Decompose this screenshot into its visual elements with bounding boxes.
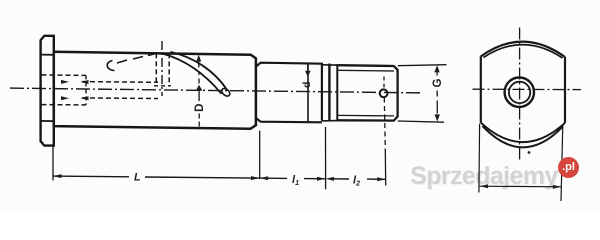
end view bottom arc outer xyxy=(483,126,564,147)
hidden bore wide xyxy=(42,74,87,77)
hidden bore narrow xyxy=(82,81,158,84)
svg-text:G: G xyxy=(432,79,444,88)
G dimension extension lines xyxy=(398,65,447,66)
D dimension xyxy=(196,55,201,62)
centerline main axis xyxy=(10,88,422,93)
hex head outline xyxy=(41,36,54,146)
hex head flat lines xyxy=(41,54,54,56)
groove curve lower xyxy=(163,54,222,94)
G dimension xyxy=(434,65,439,72)
svg-text:d: d xyxy=(301,82,313,88)
watermark pl badge xyxy=(558,157,579,178)
end view hole outer xyxy=(505,78,534,107)
cotter hole centerline dashes xyxy=(383,77,385,90)
relief bands xyxy=(322,64,337,66)
end view left flat xyxy=(480,56,482,122)
main body outline xyxy=(54,52,256,129)
scan speck xyxy=(528,151,531,154)
cross hole axis dash-dot xyxy=(161,41,163,96)
end view horizontal centerline xyxy=(473,88,582,90)
dimension arrows xyxy=(53,174,62,178)
svg-text:l2: l2 xyxy=(353,175,360,188)
cross hole hidden lines xyxy=(155,53,157,85)
threaded section outline xyxy=(337,65,397,120)
bore dimension arrows xyxy=(61,80,89,100)
surface line x=308 xyxy=(307,64,309,122)
end view right flat xyxy=(564,57,566,123)
svg-text:D: D xyxy=(194,104,206,112)
svg-text:L: L xyxy=(134,171,141,183)
watermark text xyxy=(410,162,558,191)
dimension line L l1 l2 xyxy=(53,176,386,179)
end view width dimension xyxy=(480,185,561,188)
groove curve upper xyxy=(171,52,228,91)
d dimension xyxy=(307,65,309,71)
groove end loop xyxy=(220,87,231,98)
cotter pin hole xyxy=(380,89,388,97)
end view top arc outer xyxy=(481,42,565,57)
bottom dimension extension lines xyxy=(52,146,54,180)
chamfer leader c xyxy=(107,61,114,71)
svg-text:l1: l1 xyxy=(292,174,299,187)
end view extension lines xyxy=(478,124,481,193)
thread minor diameter lines xyxy=(338,69,394,72)
end view vertical centerline xyxy=(519,28,521,162)
end view hole inner xyxy=(509,82,530,103)
middle section outline xyxy=(256,63,322,123)
l2 extension line xyxy=(384,150,386,186)
end view top arc inner xyxy=(484,45,563,58)
end view bottom arc inner xyxy=(481,123,565,143)
